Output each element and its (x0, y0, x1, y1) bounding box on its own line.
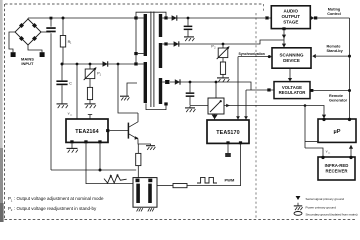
label PWM (225, 178, 235, 183)
wire IR to uP (350, 146, 352, 157)
svg-text:Power primary ground: Power primary ground (306, 205, 337, 209)
wire sync horizontal (238, 56, 272, 58)
wire primary return rail (51, 169, 136, 171)
T2 winding left (136, 184, 140, 203)
node collector feed tap (117, 63, 120, 66)
ground P1 chain (85, 104, 96, 108)
auxiliary winding (138, 62, 147, 103)
diode D5 (103, 61, 108, 66)
IC TEA5170 (207, 120, 249, 143)
ground C3 (184, 37, 194, 41)
wire output line 1 (168, 17, 265, 19)
primary winding P (138, 14, 147, 56)
wire R4 to T2 (137, 166, 139, 178)
svg-text:Serial signal primary ground: Serial signal primary ground (306, 197, 345, 201)
svg-text:INPUT: INPUT (21, 61, 34, 66)
node audio input (265, 16, 268, 19)
legend secondary ground symbol (294, 212, 302, 216)
secondary winding S3 (159, 78, 162, 104)
footnote P2 (8, 206, 97, 212)
label MAINS INPUT (21, 57, 34, 67)
pin TEA2164 drv (84, 140, 87, 143)
node sense rail (99, 169, 102, 172)
wire uP feed left (304, 106, 306, 149)
wire switch output (224, 105, 305, 107)
wire R1 top lead (62, 18, 64, 36)
wire P2 top lead (222, 44, 224, 48)
arrow on switch output (226, 104, 230, 108)
svg-text:TEA5170: TEA5170 (216, 130, 239, 136)
svg-text:INFRA-RED: INFRA-RED (325, 163, 349, 168)
pin TEA5170 top stub (214, 114, 216, 120)
label Remote Stand-by (327, 44, 344, 53)
secondary winding S1 (159, 14, 162, 37)
dashed border top (5, 3, 263, 5)
node R1 top tap (62, 17, 65, 20)
wire uP feed top (305, 106, 324, 115)
svg-text:Remote: Remote (329, 94, 343, 98)
ground emitter (146, 146, 155, 150)
pin TEA2164 sense (98, 140, 101, 143)
svg-text:Remote: Remote (327, 44, 341, 48)
svg-text:RECEIVER: RECEIVER (326, 169, 349, 174)
wire sync vertical (237, 57, 239, 120)
node remote generator (348, 89, 351, 92)
wire TEA2164 to base (110, 130, 129, 132)
wire P1 top lead (89, 64, 91, 69)
ground serial triangle (212, 115, 218, 120)
svg-text:: Output voltage adjustment at: : Output voltage adjustment at nominal m… (14, 196, 104, 201)
wire clamp to collector (118, 64, 138, 113)
node uP top right (348, 118, 351, 121)
node switch top tap (215, 81, 218, 84)
wire emitter to R4 (137, 144, 139, 153)
wire +HT top rail (28, 17, 136, 19)
switch box S1 (208, 98, 224, 114)
diode D6 (172, 15, 177, 20)
svg-text:Muting: Muting (328, 8, 341, 12)
node C2 tap (61, 63, 64, 66)
arrowhead d (244, 116, 248, 119)
pulse transformer T2 box (133, 178, 157, 208)
wire uP bottom left (305, 141, 318, 143)
wire output line 3 (170, 82, 251, 90)
wire remote generator (313, 90, 349, 92)
transformer bottom link (146, 103, 166, 109)
wire C4 lead (189, 82, 191, 92)
T2 terminal right (148, 179, 152, 183)
node uP top left (322, 118, 325, 121)
node audio bottom pin (282, 27, 285, 30)
wire P1 to R2 (89, 79, 91, 88)
diode D7 (174, 41, 179, 46)
resistor R1 (60, 36, 72, 48)
ground P2 chain (217, 78, 229, 82)
wire bridge bottom arm (28, 45, 42, 52)
wire remote standby (316, 55, 350, 57)
arrowhead b (282, 44, 286, 48)
legend serial ground text (306, 197, 345, 201)
svg-text:: Output voltage readjustment: : Output voltage readjustment in stand-b… (14, 206, 97, 211)
secondary winding S2 (159, 43, 162, 68)
transformer core (151, 12, 154, 108)
ground C4 (185, 106, 195, 113)
wire regulator input (246, 89, 274, 91)
wire TEA2164 gnd (71, 143, 73, 148)
label Vcc (68, 112, 74, 117)
wire mute line (317, 17, 349, 19)
svg-text:Generator: Generator (329, 98, 348, 102)
svg-text:VOLTAGE: VOLTAGE (282, 85, 302, 90)
T2 winding right (148, 184, 152, 203)
wire emitter node (138, 139, 151, 145)
wire clamp rail (62, 63, 136, 65)
wire regulator feed vertical (245, 90, 247, 119)
node C3 tap (187, 17, 190, 20)
node secondary tap 2 (162, 42, 168, 45)
potentiometer P1 (84, 68, 102, 81)
label Vcc IR (326, 149, 332, 154)
wire bridge right arm (41, 31, 51, 33)
arrowhead sync (236, 116, 240, 119)
wire TEA2164 sense (99, 143, 101, 170)
svg-text:Synchronization: Synchronization (239, 52, 265, 56)
svg-text:C: C (69, 82, 72, 86)
wire audio to scanning (283, 29, 285, 48)
dashed border left (4, 4, 6, 220)
capacitor C1 plates (46, 27, 55, 32)
pin TEA5170 pwm (239, 141, 242, 144)
potentiometer P2 (211, 44, 229, 59)
T2 secondary ground marks (137, 208, 154, 211)
svg-text:TEA2164: TEA2164 (75, 129, 98, 135)
svg-text:Stand-by: Stand-by (327, 49, 344, 53)
wire switch top (215, 82, 217, 98)
arrow into scanning right (312, 54, 316, 58)
svg-text:µP: µP (334, 129, 341, 135)
pin TEA5170 ref (226, 141, 229, 144)
wire P2 to R3 (222, 58, 224, 62)
svg-text:PWM: PWM (225, 178, 235, 183)
transistor Q1 collector (129, 113, 138, 127)
node Vcc line tap (76, 63, 79, 66)
node IR top right (349, 156, 352, 159)
diode D8 (175, 79, 180, 84)
wire Vcc line (76, 64, 78, 119)
legend power ground text (306, 205, 337, 209)
block voltage regulator (274, 82, 310, 99)
node regulator output (310, 89, 313, 92)
wire T2 output (157, 185, 173, 187)
wire R1 bottom lead (62, 47, 64, 64)
page edge artifact (0, 0, 4, 222)
wire PWM line (187, 144, 241, 186)
node secondary tap 1 (162, 16, 168, 19)
IC TEA2164 (66, 119, 108, 142)
label Remote Generator (329, 94, 348, 103)
square wave glyph (197, 177, 217, 183)
svg-text:SCANNING: SCANNING (279, 52, 304, 57)
node audio mute (314, 16, 317, 19)
arrowhead e (322, 115, 326, 119)
transistor Q1 base bar (127, 123, 129, 139)
wire remote bus (349, 18, 351, 119)
node regulator input (267, 88, 270, 91)
ground aux winding (120, 83, 137, 100)
node remote standby (348, 55, 351, 58)
isolation barrier dashed line (256, 4, 264, 220)
resistor R3 (220, 62, 225, 74)
wire R2 bottom lead (89, 100, 91, 104)
footnote P1 (8, 196, 104, 202)
wire scanning to regulator (289, 68, 291, 81)
node cap C1 tap (50, 17, 53, 20)
label Synchronization (239, 52, 265, 56)
mains terminal 1 (11, 52, 16, 57)
capacitor C4 plates (186, 92, 195, 97)
wire output line 2 (168, 40, 284, 44)
sawtooth waveform (104, 175, 127, 183)
T2 terminal left (136, 179, 140, 183)
wire TEA2164 drv (86, 143, 133, 183)
pin TEA2164 out (106, 129, 109, 132)
node P2 tap (222, 43, 225, 46)
node primary mid a (134, 52, 137, 55)
block audio output stage (271, 6, 310, 29)
node primary mid b (134, 62, 137, 65)
resistor R5 (173, 184, 187, 188)
TEA5170 ref pad (225, 153, 231, 157)
wire primary left column (135, 18, 137, 64)
wire C3 bottom lead (187, 30, 189, 36)
wire into audio box (269, 17, 272, 19)
wire C2 bottom lead (61, 85, 63, 103)
resistor R4 (136, 153, 141, 165)
arrowhead a (282, 35, 286, 39)
svg-text:OUTPUT: OUTPUT (282, 14, 301, 19)
svg-text:DEVICE: DEVICE (283, 58, 300, 63)
capacitor C2 plates (56, 80, 72, 85)
wire bridge left arm (9, 32, 15, 52)
ground TEA2164 (67, 148, 78, 152)
pin TEA2164 gnd (70, 140, 73, 143)
bridge rectifier D1-D4 (15, 19, 41, 45)
svg-text:REGULATOR: REGULATOR (279, 90, 307, 95)
svg-text:Secondary ground (isolated fro: Secondary ground (isolated from mains) (306, 212, 358, 216)
wire bulk line down (50, 18, 52, 170)
transformer top link (136, 12, 166, 17)
wire R3 bottom lead (222, 74, 224, 77)
wire C4 bottom lead (189, 97, 191, 105)
wire TEA5170 ref stub (227, 144, 229, 153)
wire bridge to +HT rail (27, 18, 29, 19)
svg-text:Control: Control (327, 12, 341, 16)
arrow out of audio box (311, 16, 315, 20)
block infra-red receiver (318, 157, 355, 180)
arrowhead c (288, 78, 292, 82)
node secondary tap 4 (164, 102, 167, 105)
node IR top left (321, 156, 324, 159)
svg-text:STAGE: STAGE (283, 19, 298, 24)
legend serial ground symbol (296, 196, 301, 200)
pin stub TEA2164 top 2 (88, 115, 92, 120)
mains terminal 2 (40, 52, 45, 57)
legend power ground symbol (294, 203, 303, 210)
node sync (268, 55, 271, 58)
arrowhead f (349, 145, 353, 149)
wire C3 lead (187, 18, 189, 26)
node primary top (134, 16, 137, 19)
wire C2 top lead (61, 64, 63, 80)
block microprocessor (318, 119, 356, 142)
transistor Q1 emitter (129, 134, 139, 140)
dashed border bottom (5, 219, 357, 221)
resistor R2 (87, 87, 92, 99)
node P1 tap (89, 63, 92, 66)
label Muting Control (327, 8, 341, 17)
node uP feed corner (304, 104, 307, 107)
block scanning device (272, 48, 311, 68)
arrow into audio box (271, 16, 275, 20)
ground C2 chain (57, 104, 68, 108)
svg-text:AUDIO: AUDIO (284, 9, 299, 14)
node C4 tap (189, 81, 192, 84)
legend secondary ground text (306, 212, 358, 216)
capacitor C3 plates (184, 26, 193, 31)
wire Vcc IR (305, 148, 323, 157)
wire C4 node to switch box (190, 105, 208, 107)
node secondary tap 3 (162, 80, 169, 84)
